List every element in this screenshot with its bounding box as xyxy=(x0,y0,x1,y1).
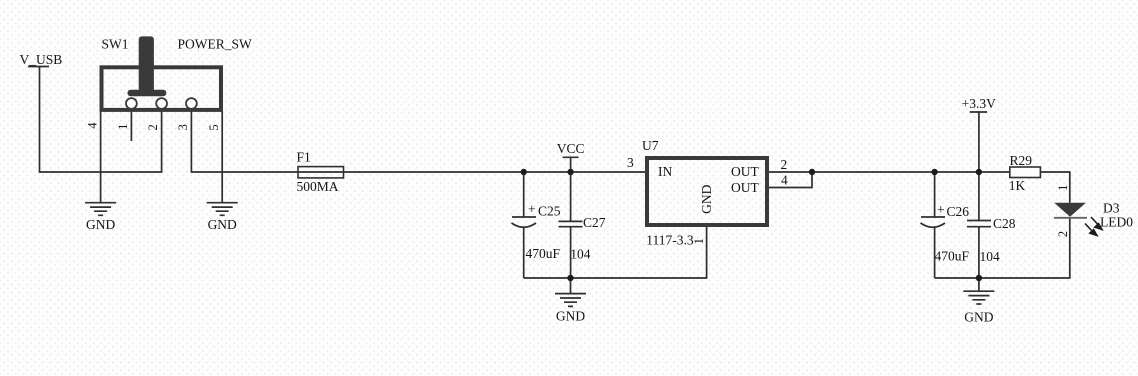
svg-text:GND: GND xyxy=(699,184,714,213)
svg-text:5: 5 xyxy=(207,124,221,130)
svg-text:4: 4 xyxy=(781,173,788,188)
svg-text:2: 2 xyxy=(1056,231,1070,237)
svg-text:C27: C27 xyxy=(583,215,606,230)
svg-text:C25: C25 xyxy=(538,204,561,219)
svg-text:GND: GND xyxy=(556,309,585,324)
svg-text:SW1: SW1 xyxy=(102,36,129,51)
svg-text:3: 3 xyxy=(627,155,634,170)
svg-text:GND: GND xyxy=(964,310,993,325)
svg-text:D3: D3 xyxy=(1103,201,1120,216)
svg-text:470uF: 470uF xyxy=(526,246,561,261)
svg-text:+3.3V: +3.3V xyxy=(962,96,996,111)
svg-text:C28: C28 xyxy=(993,216,1016,231)
svg-text:F1: F1 xyxy=(297,149,311,164)
svg-text:+: + xyxy=(528,202,536,217)
svg-text:U7: U7 xyxy=(642,138,659,153)
svg-text:GND: GND xyxy=(86,217,115,232)
svg-text:VCC: VCC xyxy=(557,141,585,156)
svg-text:POWER_SW: POWER_SW xyxy=(178,36,253,51)
svg-text:OUT: OUT xyxy=(731,164,759,179)
svg-text:500MA: 500MA xyxy=(297,179,339,194)
svg-text:104: 104 xyxy=(570,247,591,262)
svg-text:+: + xyxy=(937,202,945,217)
svg-text:470uF: 470uF xyxy=(935,249,970,264)
svg-text:4: 4 xyxy=(85,122,99,129)
svg-text:104: 104 xyxy=(980,249,1001,264)
svg-text:LED0: LED0 xyxy=(1100,215,1133,230)
svg-text:IN: IN xyxy=(658,164,672,179)
svg-text:1K: 1K xyxy=(1009,178,1026,193)
svg-text:1: 1 xyxy=(1056,185,1070,191)
svg-text:C26: C26 xyxy=(947,204,970,219)
svg-text:1: 1 xyxy=(692,238,706,244)
svg-text:1: 1 xyxy=(116,124,130,130)
svg-text:2: 2 xyxy=(781,157,788,172)
svg-text:3: 3 xyxy=(176,124,190,130)
svg-text:R29: R29 xyxy=(1010,153,1033,168)
svg-text:OUT: OUT xyxy=(731,180,759,195)
svg-text:GND: GND xyxy=(208,217,237,232)
svg-text:V_USB: V_USB xyxy=(20,52,63,67)
svg-text:2: 2 xyxy=(146,124,160,130)
svg-text:1117-3.3: 1117-3.3 xyxy=(646,233,694,248)
